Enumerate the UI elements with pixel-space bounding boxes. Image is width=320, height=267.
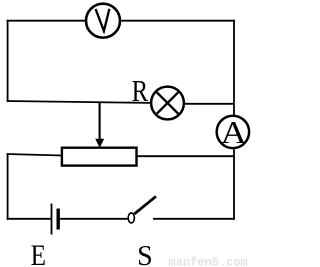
svg-text:E: E [31, 238, 46, 267]
svg-text:S: S [137, 241, 153, 267]
svg-text:manfen5.com: manfen5.com [169, 255, 248, 267]
svg-text:A: A [221, 116, 247, 151]
svg-text:R: R [132, 74, 149, 108]
